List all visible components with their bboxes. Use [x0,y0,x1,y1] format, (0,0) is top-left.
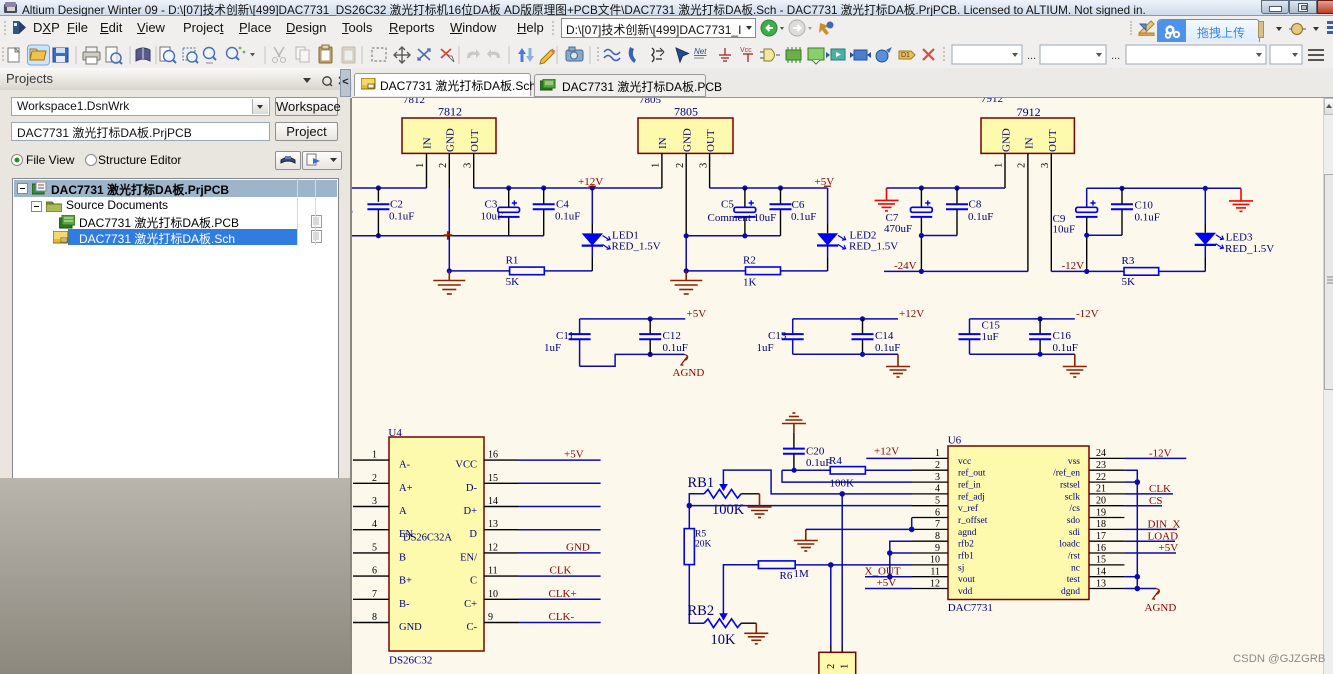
junction C14 top [860,316,865,321]
svg-text:0.1uF: 0.1uF [968,211,993,223]
pin 1 of U4 [353,450,411,471]
pin 14 of U6 [1067,567,1125,586]
svg-text:1uF: 1uF [544,342,561,354]
svg-text:12: 12 [488,542,498,553]
svg-text:2: 2 [935,460,940,471]
pin 18 of U6 [1069,519,1124,538]
junction C9 bottom [1084,269,1089,274]
svg-text:R6: R6 [780,570,793,582]
inverted ground above C20 [782,413,806,433]
pin 24 of U6 [1068,448,1125,467]
svg-text:C4: C4 [556,199,569,211]
capacitor C14 [852,319,901,354]
junction C2 top [376,185,381,190]
pin 15 of U4 [466,473,519,494]
net label CLK on U4 pin11 [550,565,572,577]
resistor R5 20K [684,506,711,565]
net label GND on U4 pin12 [566,541,590,553]
pin 8 of U4 [353,612,422,633]
svg-text:+5V: +5V [564,449,584,461]
svg-text:sdi: sdi [1069,528,1080,538]
pin 3 of U6 [912,472,981,491]
svg-text:C5: C5 [721,199,734,211]
tab bar [352,68,1333,98]
svg-text:B-: B- [399,599,410,610]
net label X_OUT [865,565,901,577]
capacitor C10 [1111,188,1160,235]
svg-text:0.1uF: 0.1uF [555,211,580,223]
wire RB1 left [689,494,704,506]
power port -12V at U6 [1149,448,1172,460]
pin 3 of 7812 [463,153,474,188]
wire DIN_X stub pin18 [1124,528,1177,530]
svg-text:10: 10 [930,555,940,566]
svg-text:C12: C12 [663,330,681,342]
row3 pcb [59,215,75,229]
svg-text:24: 24 [1096,448,1106,459]
pin 3 of 7805 [699,153,710,188]
wire C20 junction to R4 [782,469,830,471]
junction C7 stem [919,233,924,238]
svg-text:2: 2 [826,664,837,669]
capacitor C7 polarized 470uF [884,188,932,271]
pin 19 of U6 [1067,507,1125,526]
pin 15 of U6 [1071,555,1124,574]
ground at RB2 right [744,623,768,644]
svg-text:R5: R5 [695,530,706,540]
pin 5 of U6 [912,496,979,515]
regulator 7805 [638,105,733,154]
svg-text:GND: GND [399,622,422,633]
junction R2 left [684,268,689,273]
svg-text:0.1uF: 0.1uF [389,211,414,223]
svg-text:rstsel: rstsel [1060,481,1080,491]
junction C10 top [1119,186,1124,191]
power port -24V [894,260,917,272]
svg-text:RB2: RB2 [688,603,715,619]
svg-text:sj: sj [958,563,964,573]
wire U4 pin 9 stub [519,622,601,624]
svg-text:6: 6 [935,507,940,518]
junction C4 top [541,185,546,190]
power port +12V mid [899,308,924,320]
capacitor C2 [367,188,414,236]
junction R6 wire connector branch [828,562,834,568]
title bar [0,0,1333,16]
svg-text:ref_out: ref_out [958,468,986,479]
junction R1 left [447,268,452,273]
LED1 [582,188,661,271]
svg-text:1: 1 [651,163,662,168]
capacitor C3 polarized [481,188,520,236]
wire agnd to pin7 of U6 [806,528,912,530]
row1 project [14,180,337,197]
pin 16 of U6 [1068,543,1125,562]
wire +12V mid cap group [793,318,898,320]
power port +12V at U6 [874,446,899,458]
svg-text:15: 15 [1096,555,1106,566]
pin 3 of U4 [353,496,407,517]
LED2 [817,188,898,271]
pin 13 of U4 [469,519,518,540]
svg-text:3: 3 [1040,163,1051,168]
svg-text:DS26C32: DS26C32 [389,655,432,667]
pin 13 of U6 [1061,578,1124,597]
svg-text:5: 5 [935,496,940,507]
svg-text:-12V: -12V [1062,260,1085,272]
svg-text:C6: C6 [792,199,805,211]
svg-text:13: 13 [488,519,498,530]
svg-text:C15: C15 [982,319,1001,331]
wire U4 pin 15 stub [519,482,601,484]
svg-text:20K: 20K [695,540,712,550]
wire v_ref long to pin5 of U6 [689,505,912,507]
svg-text:GND: GND [566,541,590,553]
pin 4 of U4 [353,519,413,540]
wire U4 pin 10 stub [519,598,601,600]
wire +5V stub pin16 [1124,552,1176,554]
junction C7 top [919,185,924,190]
svg-text:15: 15 [488,473,498,484]
power port AGND squiggle [673,355,705,380]
ground under 7812 [433,271,465,294]
capacitor C5 polarized [708,188,777,236]
svg-text:2: 2 [1017,163,1028,168]
pin 10 of U6 [912,555,964,574]
wire -12V stub pin24 of U6 [1124,457,1186,459]
wire C10 bottom to C9 [1087,234,1122,236]
svg-text:AGND: AGND [673,367,705,379]
pin 1 of 7912 [994,153,1006,188]
svg-text:C7: C7 [886,212,899,224]
svg-text:X_OUT: X_OUT [865,565,901,577]
pin 9 of U6 [912,543,974,562]
pin 1 of 7812 [415,153,427,188]
menu bar [0,16,1333,43]
svg-text:1uF: 1uF [982,331,999,343]
net label CLK+ on U4 pin10 [549,588,577,600]
svg-text:R1: R1 [506,255,519,267]
wire +5V mid cap group [580,318,686,320]
svg-text:7812: 7812 [438,104,462,118]
svg-text:...: ... [1027,50,1036,62]
pin 2 of U6 [912,460,986,479]
svg-text:19: 19 [1096,507,1106,518]
svg-text:ref_adj: ref_adj [958,491,985,502]
wire U4 pin 11 stub [519,575,601,577]
svg-text:C+: C+ [464,599,477,610]
ground at RB1 right [748,494,772,518]
resistor R3 5K [1122,255,1159,288]
svg-text:C16: C16 [1053,330,1072,342]
svg-text:v_ref: v_ref [958,503,979,514]
wire CS stub pin20 [1124,505,1162,507]
wire 7912 gnd pin net [887,187,1006,189]
net label LOAD [1148,530,1179,542]
svg-text:/ref_en: /ref_en [1053,468,1080,479]
svg-text:D+: D+ [463,506,477,517]
pin 6 of U4 [353,566,412,587]
junction C6 top [778,185,783,190]
junction C16 top [1038,316,1043,321]
junction C7 bottom [919,269,924,274]
pin 16 of U4 [455,450,518,471]
svg-text:3: 3 [372,496,377,507]
baidu drag-upload overlay [1157,19,1260,45]
pin 17 of U6 [1059,531,1124,550]
wire +12V stub pin1 U6 [866,457,912,459]
ground under 7805 [670,271,702,294]
svg-text:4: 4 [935,484,940,495]
svg-text:U6: U6 [948,435,962,447]
net label CLK [1149,483,1171,495]
ground mid group2 [886,354,910,377]
connector header bottom [819,652,856,674]
svg-text:5K: 5K [1122,276,1136,288]
pin 23 of U6 [1053,460,1124,479]
capacitor C12 [639,319,688,355]
svg-text:R2: R2 [743,255,756,267]
svg-text:100K: 100K [830,477,855,489]
svg-text:C13: C13 [768,330,787,342]
wire GND pin2 down [448,236,450,271]
IC U6 DAC7731 [948,435,1089,615]
capacitor C20 [783,433,831,470]
wire LOAD stub pin17 [1124,540,1175,542]
junction RB1 left R5 [687,503,693,509]
wire +5V stub to pin12 of U6 [865,588,912,590]
svg-text:14: 14 [1096,567,1106,578]
wire R2 row [686,270,827,272]
partial comment text 7805 [639,94,662,106]
svg-text:GND: GND [445,128,457,152]
svg-text:Comment 10uF: Comment 10uF [708,212,777,224]
svg-text:0.1uF: 0.1uF [806,457,831,469]
svg-text:1: 1 [372,450,377,461]
junction LED1 top [590,185,595,190]
svg-text:+5V: +5V [687,308,707,320]
wire RB1 wiper to R4 and pin4 of U6 [723,470,912,494]
svg-text:23: 23 [1096,460,1106,471]
power port +5V at U6 [877,577,897,589]
svg-text:C14: C14 [875,330,894,342]
svg-text:B: B [399,552,406,563]
power port -12V mid [1076,308,1099,320]
svg-text:1: 1 [840,664,851,669]
svg-text:1: 1 [935,448,940,459]
svg-text:-24V: -24V [894,260,917,272]
svg-text:R3: R3 [1122,255,1135,267]
svg-text:2: 2 [372,473,377,484]
pin 5 of U4 [353,542,406,563]
toolbar [0,42,1333,69]
svg-text:U4: U4 [388,427,402,439]
svg-text:10uF: 10uF [481,211,504,223]
svg-text:GND: GND [1001,128,1013,152]
capacitor C11 1uF [544,319,591,366]
wire -12V mid cap group [970,318,1075,320]
wire jog to pin3 of U6 [782,470,912,482]
wire R6 right to pin10 of U6 [795,564,912,566]
svg-text:test: test [1067,575,1081,585]
svg-text:vss: vss [1068,457,1080,467]
junction pin13 [1135,586,1141,592]
power port +5V [815,176,835,188]
regulator U? 7812 [402,104,496,153]
svg-text:?: ? [352,208,353,220]
wire rfb2 rfb1 vout tie [890,541,912,577]
svg-text:sclk: sclk [1065,492,1081,502]
junction C20 bottom [792,468,797,473]
pin 2 of U4 [353,473,413,494]
svg-text:7912: 7912 [981,98,1003,105]
svg-text:loadc: loadc [1059,540,1080,550]
svg-text:2: 2 [438,163,449,168]
svg-text:r_offset: r_offset [958,515,988,526]
wire R5 bottom to RB2 left [689,565,704,624]
svg-text:IN: IN [1024,137,1036,149]
wire R4 to pin2 of U6 [865,469,912,471]
wire RB1 right to ground [741,493,759,495]
svg-text:20: 20 [1096,496,1106,507]
capacitor C16 [1029,319,1078,354]
pin 1 of U6 [912,448,971,467]
junction pin22 [1135,479,1141,485]
svg-text:13: 13 [1096,578,1106,589]
pin 10 of U4 [464,589,518,610]
svg-text:C8: C8 [969,199,982,211]
svg-text:DIN_X: DIN_X [1148,519,1181,531]
net label CLK- on U4 pin9 [549,611,575,623]
capacitor C6 [770,188,817,236]
wire input to 7812 pin1 [352,187,427,189]
svg-text:21: 21 [1096,484,1106,495]
pin 4 of U6 [912,484,985,503]
junction C2 bottom [376,233,381,238]
pin 7 of U4 [353,589,410,610]
svg-text:AGND: AGND [1145,602,1177,614]
wire X_OUT stub to pin11 of U6 [865,576,912,578]
pin 14 of U4 [463,496,518,517]
svg-text:1: 1 [994,163,1005,168]
svg-text:VCC: VCC [455,460,477,471]
wire GND net bottom left [352,235,544,237]
svg-text:DAC7731: DAC7731 [948,602,993,614]
junction rfb1 [887,550,893,556]
junction vout [887,574,893,580]
wire R1 row [449,270,592,272]
regulator 7912 [981,105,1074,153]
svg-text:11: 11 [488,566,498,577]
svg-text:17: 17 [1096,531,1106,542]
IC U4 DS26C32A [388,427,484,667]
svg-text:nc: nc [1071,563,1080,573]
net label +5V on U4 pin16 [564,449,584,461]
capacitor C9 polarized 10uF [1053,188,1098,271]
svg-text:1uF: 1uF [757,342,774,354]
svg-text:/cs: /cs [1069,504,1080,514]
svg-text:CS: CS [1149,495,1162,507]
pin 11 of U4 [470,566,519,587]
wire pin6 jog down to agnd wire [911,518,913,530]
svg-text:+12V: +12V [899,308,924,320]
wire R6 left to RB2 wiper [723,565,758,614]
svg-text:1K: 1K [743,277,757,289]
junction C8 top [954,185,959,190]
svg-text:100K: 100K [712,502,745,518]
svg-text:CLK-: CLK- [549,611,575,623]
svg-text:2: 2 [675,163,686,168]
svg-text:A-: A- [399,460,411,471]
row2 folder [31,201,42,212]
svg-text:agnd: agnd [958,528,977,538]
svg-text:Net: Net [694,47,707,56]
wire +5V net 7805 out [710,187,828,189]
potentiometer RB1 100K [688,475,745,518]
wire RB2 right to ground [741,622,756,624]
capacitor C15 1uF [959,319,1001,354]
wire U4 pin 14 stub [519,506,601,508]
svg-text:+5V: +5V [1159,542,1179,554]
svg-text:OUT: OUT [1047,129,1059,152]
comment text DS26C32A [403,533,452,544]
pin 11 of U6 [912,567,975,586]
pin 8 of U6 [912,531,974,550]
power port -12V [1062,260,1085,272]
svg-text:/rst: /rst [1068,552,1081,562]
svg-text:RB1: RB1 [688,475,715,491]
potentiometer RB2 10K [688,603,742,648]
svg-text:dgnd: dgnd [1061,587,1080,597]
pin 3 of 7912 [1040,153,1051,271]
power port +5V right [1159,542,1179,554]
wire CLK stub pin21 [1124,493,1173,495]
wire -12V net bottom [1051,270,1205,272]
svg-text:0.1uF: 0.1uF [791,211,816,223]
svg-text:sdo: sdo [1067,516,1080,526]
svg-text:8: 8 [372,612,377,623]
svg-text:vdd: vdd [958,587,973,597]
svg-text:9: 9 [488,612,493,623]
svg-text:A+: A+ [399,483,413,494]
pin 6 of U6 [912,507,988,526]
svg-text:18: 18 [1096,519,1106,530]
projects panel [0,68,352,478]
capacitor C13 1uF [757,319,804,354]
junction GND pin2 crossing [444,231,453,240]
svg-text:7805: 7805 [639,98,662,106]
resistor R4 100K [829,455,865,490]
pin 1 of 7805 [651,153,662,188]
junction C5 top [742,185,747,190]
svg-text:+5V: +5V [877,577,897,589]
svg-text:D: D [469,529,477,540]
AGND red ground left of C7 [875,188,899,211]
partial comment text 7912 [981,93,1003,105]
svg-text:12: 12 [930,578,940,589]
svg-text:-12V: -12V [1149,448,1172,460]
pin 2 of 7912 [1017,153,1028,271]
wire mid group3 bottom [970,353,1075,355]
svg-text:0.1uF: 0.1uF [1053,342,1078,354]
svg-text:C3: C3 [485,199,498,211]
svg-text:7812: 7812 [403,98,425,106]
pin 2 of 7805 [675,153,686,235]
resistor R6 1M [758,561,809,582]
svg-text:5: 5 [372,542,377,553]
junction C9 stem [1084,233,1089,238]
LED3 [1195,188,1275,271]
